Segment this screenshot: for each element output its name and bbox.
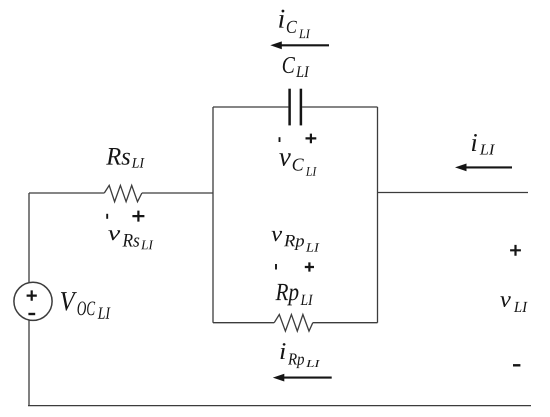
minus tick of v_Rp_LI xyxy=(275,264,277,270)
label v_LI xyxy=(500,296,527,312)
voltage source V_OC_LI circle xyxy=(14,282,52,320)
wire: left vertical upper xyxy=(28,193,30,282)
plus sign of v_C_LI xyxy=(306,134,317,144)
label i_LI xyxy=(472,134,495,155)
plus sign of v_LI xyxy=(510,245,521,256)
wire: left vertical lower xyxy=(28,320,30,405)
label Rp_LI xyxy=(275,284,313,306)
wire: main horizontal left segment xyxy=(29,192,104,194)
wire: bottom rail xyxy=(28,405,531,407)
label Rs_LI xyxy=(106,148,144,168)
label v_Rp_LI xyxy=(272,231,320,252)
voltage source plus sign xyxy=(27,290,37,300)
minus tick of v_C_LI xyxy=(279,137,281,142)
voltage source minus sign xyxy=(28,313,35,315)
arrow for current i_LI xyxy=(455,164,512,172)
resistor Rs_LI zigzag xyxy=(104,185,142,201)
plus sign of v_Rs_LI xyxy=(132,211,144,222)
wire: box bottom edge right of resistor Rp xyxy=(313,322,378,324)
label v_Rs_LI xyxy=(108,230,153,249)
capacitor C_LI left plate xyxy=(288,89,291,126)
resistor Rp_LI zigzag xyxy=(274,315,313,332)
label v_C_LI xyxy=(279,153,317,176)
minus tick of v_Rs_LI xyxy=(106,214,108,219)
arrow for current i_C_LI xyxy=(270,41,329,49)
wire: box right vertical edge xyxy=(377,107,379,323)
plus sign of v_Rp_LI xyxy=(305,262,314,271)
arrow for current i_Rp_LI xyxy=(273,374,332,382)
wire: box left vertical edge xyxy=(212,107,214,323)
label i_Rp_LI xyxy=(281,343,321,368)
label V_OC_LI xyxy=(61,292,111,319)
wire: box top edge right of capacitor xyxy=(302,106,377,108)
wire: from resistor Rs to box left edge xyxy=(142,192,213,194)
capacitor C_LI right plate xyxy=(300,89,303,126)
wire: box bottom edge left of resistor Rp xyxy=(213,322,274,324)
wire: box top edge left of capacitor xyxy=(213,106,288,108)
label i_C_LI xyxy=(279,10,310,38)
label C_LI xyxy=(283,57,310,77)
wire: right horizontal to terminal xyxy=(378,192,529,194)
minus sign of v_LI xyxy=(513,364,520,366)
